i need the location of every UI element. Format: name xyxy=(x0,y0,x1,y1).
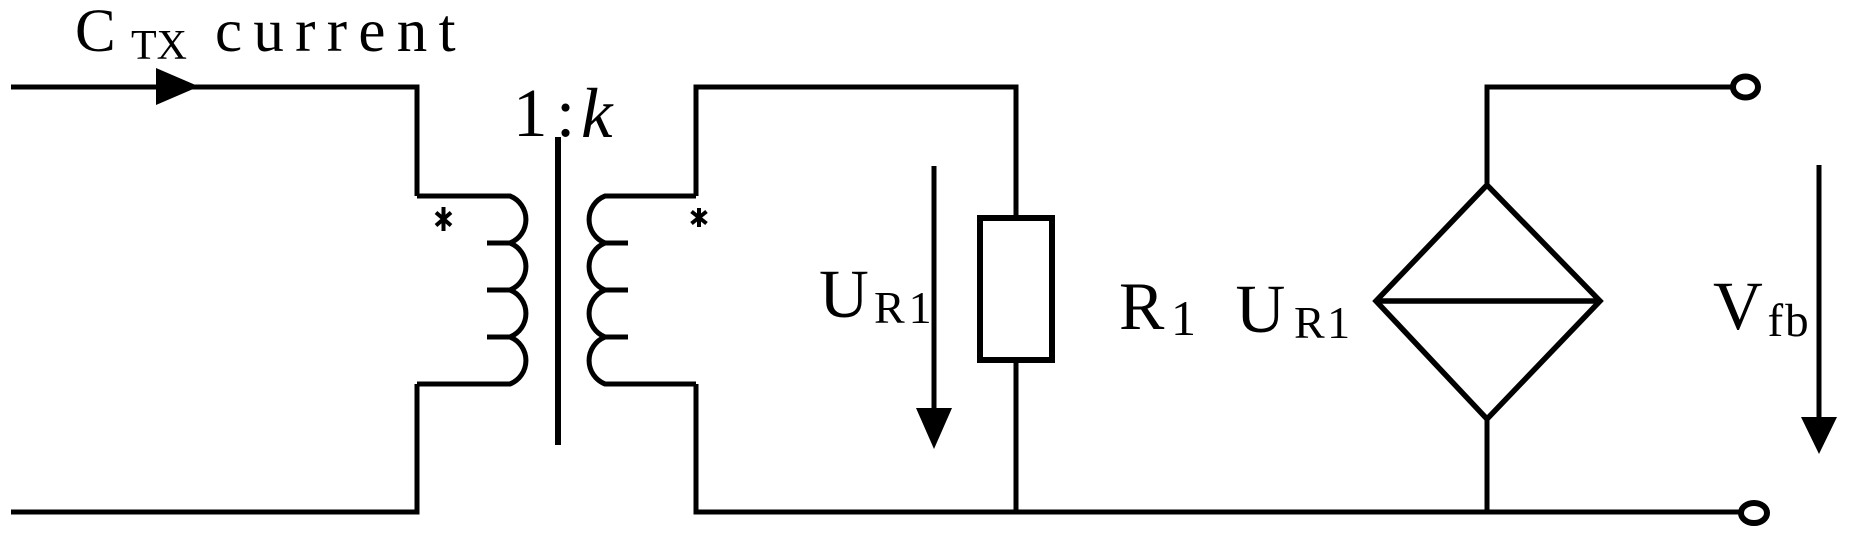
svg-text::: : xyxy=(556,75,575,151)
svg-text:current: current xyxy=(215,0,467,65)
wire: secondary bottom rail xyxy=(696,384,1741,512)
voltage arrow Vfb xyxy=(1801,165,1837,454)
svg-text:U: U xyxy=(1236,271,1286,347)
wire: primary bottom return to left edge xyxy=(11,384,417,512)
label: Vfb xyxy=(1713,268,1811,347)
svg-text:R: R xyxy=(1119,268,1165,344)
svg-text:V: V xyxy=(1713,268,1763,344)
wire: primary top vertical drop xyxy=(415,85,420,197)
svg-text:TX: TX xyxy=(131,23,187,69)
label: UR1 (across R1) xyxy=(819,256,936,333)
resistor R1 (box) xyxy=(980,218,1052,360)
transformer T1 primary winding xyxy=(417,196,526,384)
terminal: Vfb positive (top right) xyxy=(1733,77,1758,98)
dependent source E1 (diamond) xyxy=(1376,185,1600,419)
svg-text:R1: R1 xyxy=(874,282,936,333)
wire: input current (top left horizontal) xyxy=(11,85,417,90)
wire: dependent source top to output terminal xyxy=(1487,87,1734,185)
wire: dependent source bottom to rail xyxy=(1485,419,1490,512)
voltage arrow UR1 (across R1) xyxy=(916,166,952,449)
svg-text:k: k xyxy=(581,75,614,153)
label: R1 xyxy=(1119,268,1196,346)
label: turns ratio 1:k xyxy=(513,75,614,153)
terminal: Vfb negative (bottom right) xyxy=(1741,503,1767,523)
svg-text:fb: fb xyxy=(1768,295,1811,347)
transformer T1 core xyxy=(555,137,561,445)
arrowhead: input current direction xyxy=(156,68,199,105)
dot marker: primary winding polarity (asterisk) xyxy=(436,207,451,231)
wire: secondary top to resistor R1 xyxy=(696,87,1016,215)
svg-text:1: 1 xyxy=(1171,290,1196,346)
label: CTX current xyxy=(75,0,467,69)
svg-text:1: 1 xyxy=(513,75,548,151)
transformer T1 secondary winding xyxy=(589,196,696,384)
label: UR1 (controlling voltage of dependent source) xyxy=(1236,271,1353,348)
dot marker: secondary winding polarity (asterisk) xyxy=(692,208,707,227)
wire: resistor R1 bottom lead xyxy=(1014,363,1019,512)
svg-text:R1: R1 xyxy=(1294,297,1353,348)
svg-text:C: C xyxy=(75,0,116,65)
svg-text:U: U xyxy=(819,256,869,332)
